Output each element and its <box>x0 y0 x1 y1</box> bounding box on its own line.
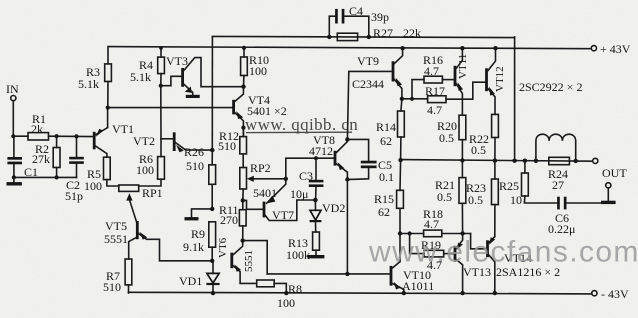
node R10 top on rail <box>242 46 246 50</box>
svg-text:510: 510 <box>103 280 121 294</box>
-43V terminal <box>592 291 597 296</box>
transistor VT8 <box>335 139 347 179</box>
node VT13 collector on rail <box>460 291 464 295</box>
node R20/R21 on output rail <box>460 158 464 162</box>
wire VT9 base column <box>347 71 391 139</box>
resistor R3 <box>105 48 112 108</box>
resistor R19 <box>410 234 454 257</box>
svg-text:510: 510 <box>218 139 236 153</box>
resistor R5 <box>104 157 119 186</box>
resistor R25 <box>522 161 558 203</box>
inductor L <box>536 134 576 161</box>
svg-text:0.5: 0.5 <box>439 131 454 145</box>
ground R13 <box>307 255 324 258</box>
svg-text:4.7: 4.7 <box>427 103 442 117</box>
svg-text:100k: 100k <box>286 248 310 262</box>
ground symbol input <box>7 177 22 185</box>
node C2 top <box>74 134 78 138</box>
node VT9 emitter / R16 R17 branch <box>400 97 404 101</box>
node VT2 emitter / feedback <box>210 148 214 152</box>
svg-text:VT9: VT9 <box>357 54 379 68</box>
svg-text:62: 62 <box>378 205 390 219</box>
node VT10 emitter on rail <box>402 291 406 295</box>
node VT8 emitter / C5 bottom <box>345 177 349 181</box>
node VT11 collector on rail <box>460 46 464 50</box>
svg-text:VT11: VT11 <box>457 54 469 79</box>
svg-text:- 43V: - 43V <box>601 287 629 301</box>
ground VT3 <box>186 95 200 98</box>
node R2 top <box>55 134 59 138</box>
capacitor C3 <box>309 158 324 200</box>
resistor R16 <box>424 76 454 83</box>
svg-text:5.1k: 5.1k <box>130 70 151 84</box>
node R10 bottom / VT4 collector <box>241 85 245 89</box>
feedback column from R27 <box>211 37 213 150</box>
node coil left <box>534 159 538 163</box>
svg-text:C2344: C2344 <box>352 77 384 91</box>
-43V rail <box>129 292 592 294</box>
node R11 bottom / VT6 collector <box>241 238 245 242</box>
svg-text:IN: IN <box>6 82 19 96</box>
transistor VT7 <box>243 179 315 221</box>
node RP2 bottom / VT7 base <box>241 198 245 202</box>
capacitor C2 <box>69 136 84 177</box>
svg-text:100: 100 <box>84 179 102 193</box>
wire base line R3 to VT4 <box>108 107 233 109</box>
svg-text:10: 10 <box>510 193 522 207</box>
svg-text:R8: R8 <box>288 282 302 296</box>
resistor R1 <box>28 133 49 140</box>
transistor VT3 <box>161 58 244 95</box>
wire emitter column down to VT10 base <box>346 180 348 274</box>
ground return line <box>14 176 77 178</box>
resistor R17 <box>412 82 485 102</box>
svg-text:OUT: OUT <box>602 166 627 180</box>
resistor R27 <box>337 33 357 40</box>
svg-text:0.5: 0.5 <box>437 190 452 204</box>
node R18 left <box>398 231 402 235</box>
resistor R26 <box>209 165 216 209</box>
svg-text:R9: R9 <box>191 227 205 241</box>
svg-text:VD1: VD1 <box>179 274 202 288</box>
transistor VT13 <box>455 233 463 293</box>
resistor R21 <box>459 160 466 233</box>
transistor VT5 <box>129 200 212 261</box>
svg-text:C4: C4 <box>349 4 363 18</box>
svg-text:100: 100 <box>136 163 154 177</box>
svg-text:VT5: VT5 <box>105 219 127 233</box>
diode VD1 <box>206 261 219 293</box>
svg-text:VT1: VT1 <box>112 122 134 136</box>
node R25 top <box>523 159 527 163</box>
capacitor C5 <box>347 139 376 179</box>
svg-text:C3: C3 <box>299 169 313 183</box>
resistor R4 <box>158 48 165 86</box>
capacitor C4 <box>329 9 369 37</box>
svg-text:VT7: VT7 <box>272 208 294 222</box>
node feedback on output rail <box>512 159 516 163</box>
transistor VT4 <box>234 87 244 137</box>
node VT13 emitter / R21 <box>460 231 464 235</box>
node input/C1 junction <box>11 134 15 138</box>
svg-text:51p: 51p <box>65 189 83 203</box>
resistor R22 <box>492 114 499 160</box>
transistor VT14 <box>488 237 496 294</box>
node R26/R9 ground tap <box>210 207 214 211</box>
svg-text:RP1: RP1 <box>142 186 163 200</box>
svg-text:VT12: VT12 <box>494 66 506 92</box>
resistor R14 <box>398 99 405 160</box>
output rail <box>401 160 593 162</box>
svg-text:+ 43V: + 43V <box>600 42 631 56</box>
transistor VT9 <box>393 48 403 99</box>
node VT12 collector on rail <box>493 46 497 50</box>
wire VT8 base line <box>286 158 334 179</box>
svg-text:9.1k: 9.1k <box>183 240 204 254</box>
+43V rail <box>108 47 591 49</box>
node R22/R23 on output rail <box>493 158 497 162</box>
svg-text:27: 27 <box>552 178 564 192</box>
node mid rail R14/R15 <box>398 158 402 162</box>
svg-text:4.7: 4.7 <box>424 64 439 78</box>
svg-text:2SC2922 × 2: 2SC2922 × 2 <box>519 80 582 94</box>
svg-text:39p: 39p <box>371 10 389 24</box>
svg-text:R25: R25 <box>499 179 519 193</box>
svg-text:0.1: 0.1 <box>379 170 394 184</box>
svg-text:R14: R14 <box>376 120 396 134</box>
svg-text:www.elecfans.com: www.elecfans.com <box>368 236 638 269</box>
node R8 on rail <box>284 291 288 295</box>
resistor R10 <box>241 48 248 87</box>
transistor VT11 <box>455 48 463 115</box>
IN terminal <box>11 96 16 101</box>
svg-text:5401: 5401 <box>253 186 277 200</box>
node R3 bottom / VT1 emitter <box>106 106 110 110</box>
diode VD2 <box>310 200 322 232</box>
node R2 bottom <box>55 175 59 179</box>
potentiometer RP2 <box>240 168 286 201</box>
transistor VT6 <box>232 241 257 284</box>
R27 feedback line <box>212 36 514 37</box>
node VT14 collector on rail <box>493 291 497 295</box>
node gnd line left <box>12 175 16 179</box>
svg-text:22k: 22k <box>403 26 421 40</box>
input line to VT1 base <box>13 135 93 137</box>
resistor R24 <box>549 157 570 164</box>
svg-text:10μ: 10μ <box>290 187 308 201</box>
node RP2 wiper / VT8 base branch <box>284 177 288 181</box>
node R4 bottom / VT3 base <box>159 84 163 88</box>
svg-text:VT6: VT6 <box>217 237 229 258</box>
node VD1 on rail <box>211 291 215 295</box>
resistor R6 <box>139 157 165 186</box>
svg-text:RP2: RP2 <box>250 161 271 175</box>
capacitor C1 <box>7 136 22 177</box>
resistor R7 <box>125 259 132 293</box>
svg-text:VT2: VT2 <box>133 134 155 148</box>
svg-text:0.5: 0.5 <box>471 143 486 157</box>
svg-text:270: 270 <box>220 213 238 227</box>
svg-text:0.22μ: 0.22μ <box>548 222 575 236</box>
wire VT14 base <box>471 234 487 249</box>
node C3 top <box>314 156 318 160</box>
resistor R11 <box>239 200 246 240</box>
wire R4 column down to R6 <box>160 86 162 157</box>
node R19 tap <box>408 231 412 235</box>
node VT10 base / emitter column <box>345 272 349 276</box>
node VT6 base / VD1 top <box>210 259 214 263</box>
resistor R20 <box>459 115 466 160</box>
resistor R2 <box>53 136 60 177</box>
resistor R18 <box>400 230 471 237</box>
svg-text:0.5: 0.5 <box>468 193 483 207</box>
wire feedback to output rail <box>514 37 516 161</box>
svg-text:4712: 4712 <box>309 144 333 158</box>
node VT4 emitter lead <box>241 126 245 130</box>
OUT terminal <box>593 158 598 163</box>
svg-text:VT3: VT3 <box>166 54 188 68</box>
wire R11 bottom to VT10 base line <box>243 241 268 274</box>
node VT8 collector / C5 top <box>345 137 349 141</box>
node C4 right <box>367 35 371 39</box>
resistor R9 <box>209 222 216 261</box>
svg-text:R27: R27 <box>373 26 393 40</box>
watermark qqibb <box>245 115 358 134</box>
+43V terminal <box>591 46 596 51</box>
wire R15 column to VT10 collector <box>399 234 401 262</box>
transistor VT12 <box>487 48 496 114</box>
svg-text:4.7: 4.7 <box>424 217 439 231</box>
svg-text:VD2: VD2 <box>322 201 345 215</box>
resistor R23 <box>492 161 499 237</box>
capacitor C6 <box>557 197 601 210</box>
ground branch at R9 top <box>185 209 213 221</box>
ground output <box>601 183 616 204</box>
svg-text:510: 510 <box>186 159 204 173</box>
svg-text:R15: R15 <box>374 192 394 206</box>
node R17 left <box>410 97 414 101</box>
resistor R15 <box>397 160 404 233</box>
wire IN down to input node <box>12 101 14 136</box>
node C4 left <box>327 35 331 39</box>
node VD2 top / VT7 collector <box>313 198 318 203</box>
svg-text:5.1k: 5.1k <box>78 77 99 91</box>
potentiometer RP1 <box>119 185 139 201</box>
svg-text:5551: 5551 <box>243 250 255 272</box>
svg-text:27k: 27k <box>32 152 50 166</box>
transistor VT10 <box>267 262 404 294</box>
transistor VT1 <box>94 108 107 158</box>
svg-text:100: 100 <box>277 296 295 310</box>
svg-text:A1011: A1011 <box>402 279 434 293</box>
wire R26 column <box>211 150 213 165</box>
node R4 top on rail <box>159 46 163 50</box>
svg-text:5401 ×2: 5401 ×2 <box>247 104 287 118</box>
svg-text:R17: R17 <box>425 84 445 98</box>
resistor R13 <box>313 232 320 255</box>
transistor VT2 <box>161 132 212 152</box>
node coil right <box>574 159 578 163</box>
watermark elecfans <box>368 236 638 269</box>
svg-text:62: 62 <box>380 134 392 148</box>
svg-text:100: 100 <box>249 64 267 78</box>
wire R16/R17 left node <box>402 80 424 100</box>
svg-text:2k: 2k <box>31 122 43 136</box>
node VT9 collector on rail <box>400 46 404 50</box>
resistor R12 <box>240 128 247 168</box>
svg-text:C1: C1 <box>24 165 38 179</box>
svg-text:5551: 5551 <box>104 232 128 246</box>
svg-text:R26: R26 <box>184 145 204 159</box>
resistor R8 <box>257 280 287 293</box>
